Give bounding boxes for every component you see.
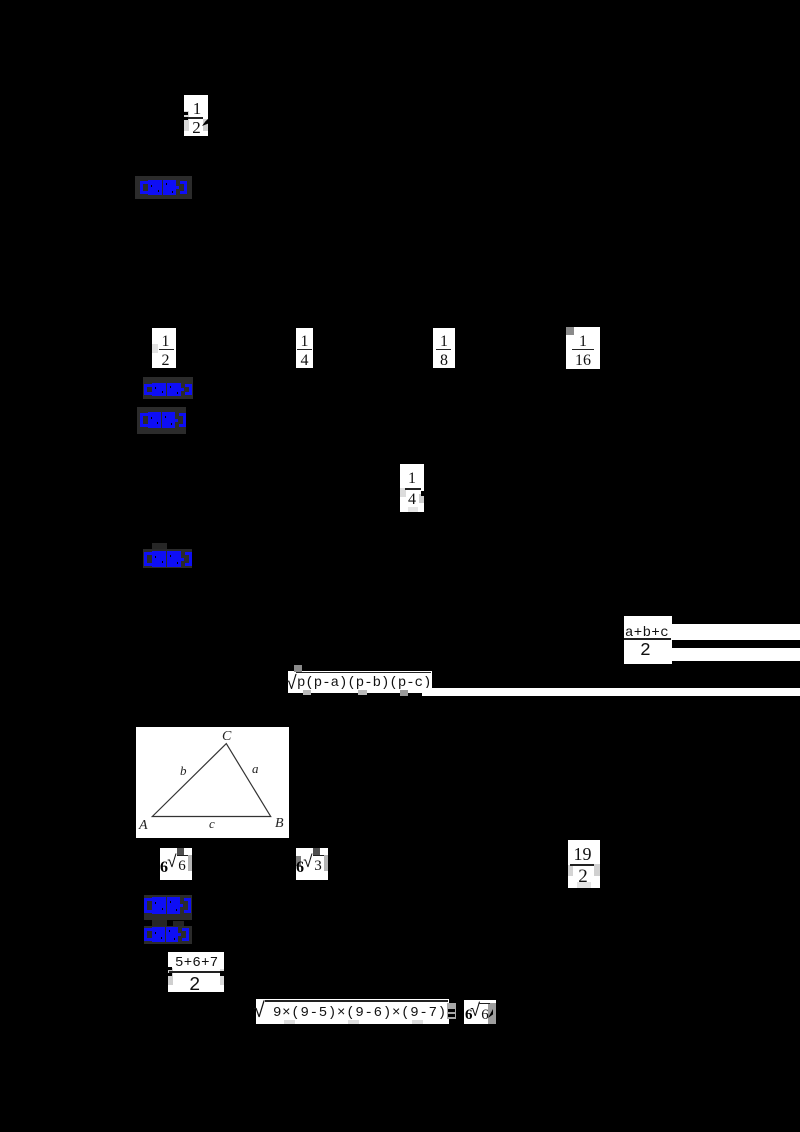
option D fraction 1/16 xyxy=(566,327,600,369)
equals after long sqrt xyxy=(448,1009,455,1012)
svg-text:A: A xyxy=(138,818,148,833)
svg-text:C: C xyxy=(222,729,232,744)
comma after statement fraction xyxy=(202,118,209,126)
option B2: 6 sqrt3 xyxy=(296,848,328,880)
white strip right of a+b+c (line bg) xyxy=(672,624,800,640)
label L4 xyxy=(152,543,167,549)
option B fraction 1/4 xyxy=(296,328,313,368)
long sqrt 9x(9-5)x(9-6)x(9-7) box xyxy=(256,999,449,1024)
svg-text:c: c xyxy=(209,816,215,831)
option D2: 19/2 xyxy=(568,840,600,888)
small gray marks between L5 and L6 xyxy=(152,920,167,927)
statement fraction 1/2 xyxy=(184,95,208,136)
equals before statement fraction xyxy=(182,112,188,115)
(5+6+7)/2 box xyxy=(168,952,224,992)
gray column at long sqrt right edge xyxy=(447,1003,456,1019)
option C fraction 1/8 xyxy=(433,328,455,368)
a+b+c over 2 box xyxy=(624,616,672,664)
option A2: 6 sqrt6 xyxy=(160,848,192,880)
label L2 xyxy=(143,377,193,399)
option A fraction 1/2 xyxy=(152,328,176,368)
label L5 xyxy=(144,895,192,920)
label L6 xyxy=(144,926,192,944)
result 6 sqrt6 box xyxy=(464,1000,496,1024)
triangle sides xyxy=(152,744,270,817)
black tick at triangle box left edge xyxy=(136,819,138,830)
svg-text:B: B xyxy=(275,816,284,831)
sqrt p(p-a)(p-b)(p-c) box xyxy=(288,671,432,693)
answer fraction 1/4 xyxy=(400,464,424,512)
triangle figure box xyxy=(136,727,289,838)
label L1 xyxy=(135,176,192,199)
comma after (5+6+7)/2 xyxy=(220,971,224,976)
white strip after sqrt formula (line bg) xyxy=(422,688,800,696)
svg-text:b: b xyxy=(180,763,187,778)
label L3 xyxy=(137,407,186,434)
svg-text:a: a xyxy=(252,761,259,776)
comma after answer fraction xyxy=(421,491,425,496)
white strip right of denominator 2 xyxy=(672,648,800,661)
equals before (5+6+7)/2 xyxy=(165,967,172,970)
